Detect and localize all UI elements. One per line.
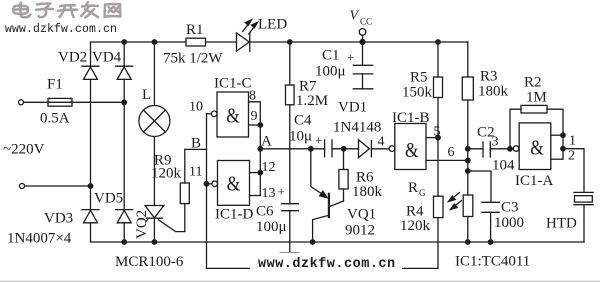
- power terminal Vcc: [359, 29, 366, 42]
- svg-text:R5: R5: [410, 70, 428, 86]
- svg-text:~220V: ~220V: [3, 142, 45, 158]
- pin label 4: [378, 135, 385, 150]
- label Vcc: [350, 9, 373, 27]
- svg-text:R2: R2: [524, 75, 542, 91]
- label 180k R3: [478, 84, 509, 100]
- photoresistor RG: [449, 193, 473, 243]
- diode VD4: [116, 42, 133, 210]
- svg-text:9012: 9012: [345, 223, 375, 239]
- svg-text:10μ: 10μ: [289, 129, 312, 145]
- svg-text:R3: R3: [480, 69, 498, 85]
- top watermark url: [5, 23, 117, 36]
- label R4: [406, 204, 424, 220]
- label MCR100-6: [115, 254, 184, 270]
- thyristor VQ2: [145, 204, 185, 242]
- label 75k 1/2W: [163, 51, 223, 67]
- label 1000: [494, 215, 524, 231]
- gate ampersand IC1-D: [227, 172, 241, 196]
- label VQ2 vertical: [134, 210, 150, 239]
- label IC1-A: [515, 173, 553, 189]
- svg-text:150k: 150k: [402, 85, 433, 101]
- op-amp gate IC1-C: [207, 92, 249, 137]
- pin label 11: [189, 165, 202, 180]
- svg-text:8: 8: [249, 89, 256, 104]
- pin label 3: [492, 135, 499, 150]
- diode VD3: [82, 186, 99, 242]
- svg-text:3: 3: [492, 135, 499, 150]
- bottom edge line: [0, 280, 600, 282]
- label VD5: [94, 191, 123, 207]
- svg-text:&: &: [405, 138, 419, 162]
- resistor R4: [434, 196, 444, 217]
- plus sign C1: [347, 50, 354, 65]
- svg-text:&: &: [226, 104, 240, 128]
- wire AC terminal 2 to bridge: [25, 185, 91, 187]
- svg-text:+: +: [315, 133, 322, 148]
- capacitor C3: [468, 171, 499, 242]
- pin label 8: [249, 89, 256, 104]
- pin label 1: [569, 134, 576, 149]
- svg-text:5: 5: [434, 125, 441, 140]
- svg-text:B: B: [191, 136, 201, 152]
- svg-text:VQ1: VQ1: [347, 207, 376, 223]
- label ~220V: [3, 142, 45, 158]
- svg-text:1N4007×4: 1N4007×4: [7, 231, 72, 247]
- pin label 2: [568, 149, 575, 164]
- svg-text:180k: 180k: [478, 84, 509, 100]
- label C4: [294, 113, 312, 129]
- wire bottom rail: [91, 241, 585, 243]
- label 150k: [402, 85, 433, 101]
- label L: [142, 87, 151, 103]
- diode VD1: [359, 140, 389, 158]
- wire node B: [185, 148, 207, 150]
- label IC1-D: [215, 207, 253, 223]
- label 120k R9: [151, 166, 182, 182]
- label R7: [299, 79, 317, 95]
- svg-text:IC1-B: IC1-B: [392, 110, 430, 126]
- label 1.2M: [296, 93, 328, 109]
- resistor R1: [186, 38, 206, 46]
- fuse F1: [24, 98, 125, 106]
- svg-text:L: L: [142, 87, 151, 103]
- svg-text:IC1:TC4011: IC1:TC4011: [455, 254, 530, 270]
- resistor R3: [462, 42, 473, 195]
- svg-text:A: A: [261, 134, 272, 150]
- label C3: [501, 200, 519, 216]
- svg-text:10: 10: [189, 100, 203, 115]
- label R1: [186, 22, 204, 38]
- svg-text:HTD: HTD: [546, 216, 577, 232]
- svg-text:11: 11: [189, 165, 202, 180]
- resistor R7: [286, 42, 295, 204]
- svg-text:VD4: VD4: [92, 50, 122, 66]
- svg-text:F1: F1: [47, 77, 63, 93]
- svg-text:13: 13: [262, 186, 276, 201]
- wire gate A output to HTD: [563, 149, 584, 193]
- svg-text:LED: LED: [258, 17, 287, 33]
- lamp L: [139, 42, 170, 206]
- svg-text:www.dzkfw.com.cn: www.dzkfw.com.cn: [5, 23, 117, 36]
- wire node A horizontal: [260, 148, 324, 150]
- label 9012: [345, 223, 375, 239]
- bottom watermark www.dzkfw.com.cn: [258, 257, 396, 272]
- svg-text:C3: C3: [501, 200, 519, 216]
- capacitor C1: [353, 42, 372, 89]
- pin label 13: [262, 186, 276, 201]
- label 10u C4: [289, 129, 312, 145]
- svg-text:+: +: [278, 184, 285, 199]
- label 180k R6: [352, 184, 383, 200]
- svg-text:G: G: [419, 188, 426, 198]
- svg-text:C4: C4: [294, 113, 312, 129]
- pin label 9: [251, 109, 258, 124]
- label 1M: [526, 90, 547, 106]
- node label B: [191, 136, 201, 152]
- label C1: [322, 48, 340, 64]
- svg-text:IC1-A: IC1-A: [515, 173, 553, 189]
- svg-text:V: V: [350, 9, 360, 24]
- svg-text:R1: R1: [186, 22, 204, 38]
- wire top rail right segment: [250, 41, 468, 43]
- svg-text:C6: C6: [256, 204, 274, 220]
- label 100u C1: [315, 64, 346, 80]
- svg-text:6: 6: [448, 145, 455, 160]
- svg-text:75k 1/2W: 75k 1/2W: [163, 51, 223, 67]
- label LED: [258, 17, 287, 33]
- svg-text:&: &: [227, 172, 241, 196]
- svg-text:VD3: VD3: [44, 211, 73, 227]
- label R6: [356, 170, 374, 186]
- svg-text:VD2: VD2: [58, 50, 87, 66]
- pin 6 wire: [426, 159, 468, 161]
- resistor R5: [434, 42, 443, 196]
- label 120k R4: [400, 218, 431, 234]
- wire node A to VQ1 base arrow: [311, 149, 327, 198]
- resistor R2: [510, 105, 563, 148]
- transistor VQ1: [313, 194, 329, 242]
- pin label 5: [434, 125, 441, 140]
- wire top rail left segment: [91, 41, 187, 43]
- svg-text:1000: 1000: [494, 215, 524, 231]
- LED D1: [237, 20, 258, 52]
- node label A: [261, 134, 272, 150]
- label 0.5A: [40, 111, 70, 127]
- label VD2: [58, 50, 87, 66]
- svg-text:180k: 180k: [352, 184, 383, 200]
- svg-text:104: 104: [492, 158, 515, 174]
- svg-text:www.dzkfw.com.cn: www.dzkfw.com.cn: [258, 257, 396, 272]
- svg-text:120k: 120k: [400, 218, 431, 234]
- label VD3: [44, 211, 73, 227]
- pin 13 wire: [250, 195, 261, 197]
- svg-text:&: &: [530, 136, 544, 160]
- svg-text:R: R: [408, 180, 418, 196]
- label 104: [492, 158, 515, 174]
- label VD4: [92, 50, 122, 66]
- wire top rail between R1 and LED: [206, 41, 237, 43]
- label VD1: [338, 100, 367, 116]
- label HTD: [546, 216, 577, 232]
- label R5: [410, 70, 428, 86]
- label R2: [524, 75, 542, 91]
- svg-text:C1: C1: [322, 48, 340, 64]
- svg-text:2: 2: [568, 149, 575, 164]
- svg-text:12: 12: [262, 160, 276, 175]
- pin label 12: [262, 160, 276, 175]
- bottom watermark white box: [250, 253, 402, 272]
- svg-text:100μ: 100μ: [256, 219, 287, 235]
- pin 5 wire: [426, 137, 438, 139]
- pin label 10: [189, 100, 203, 115]
- gate ampersand IC1-A: [530, 136, 544, 160]
- svg-text:CC: CC: [360, 17, 372, 27]
- label R9: [154, 153, 172, 169]
- AC terminal 1: [19, 100, 24, 105]
- label R3: [480, 69, 498, 85]
- svg-text:1M: 1M: [526, 90, 547, 106]
- gate ampersand IC1-B: [405, 138, 419, 162]
- pin 1 wire: [551, 135, 563, 149]
- op-amp gate IC1-B: [389, 124, 426, 170]
- op-amp gate IC1-D: [207, 161, 250, 206]
- diode VD2: [82, 42, 99, 186]
- svg-text:9: 9: [251, 109, 258, 124]
- wire node A column: [259, 125, 261, 196]
- label C2: [477, 125, 495, 141]
- svg-text:1N4148: 1N4148: [333, 120, 381, 136]
- label VQ1: [347, 207, 376, 223]
- svg-text:1.2M: 1.2M: [296, 93, 328, 109]
- resistor R6: [329, 149, 348, 207]
- label 1N4007x4: [7, 231, 72, 247]
- svg-text:MCR100-6: MCR100-6: [115, 254, 184, 270]
- svg-text:VD5: VD5: [94, 191, 123, 207]
- pin 2 wire: [551, 149, 563, 160]
- label IC1:TC4011: [455, 254, 530, 270]
- svg-text:IC1-D: IC1-D: [215, 207, 253, 223]
- label IC1-B: [392, 110, 430, 126]
- svg-text:120k: 120k: [151, 166, 182, 182]
- diode VD5: [116, 210, 133, 242]
- gate ampersand IC1-C: [226, 104, 240, 128]
- plus sign C4: [315, 133, 322, 148]
- plus sign C6: [278, 184, 285, 199]
- buzzer HTD: [574, 192, 593, 242]
- svg-text:IC1-C: IC1-C: [214, 76, 252, 92]
- pin 9 wire: [249, 124, 261, 126]
- capacitor C2: [468, 142, 513, 157]
- top watermark hanzi: [13, 2, 120, 17]
- svg-text:VD1: VD1: [338, 100, 367, 116]
- resistor R9: [180, 149, 189, 203]
- pin 12 wire: [250, 172, 261, 174]
- svg-text:4: 4: [378, 135, 385, 150]
- wire gate output column and feedback to R4: [207, 114, 439, 269]
- svg-text:100μ: 100μ: [315, 64, 346, 80]
- label 100u C6: [256, 219, 287, 235]
- capacitor C4: [325, 140, 359, 157]
- label F1: [47, 77, 63, 93]
- svg-text:VQ2: VQ2: [134, 210, 150, 239]
- label RG: [408, 180, 426, 198]
- svg-text:0.5A: 0.5A: [40, 111, 70, 127]
- op-amp gate IC1-A: [513, 123, 551, 170]
- svg-text:+: +: [347, 50, 354, 65]
- svg-text:1: 1: [569, 134, 576, 149]
- pin label 6: [448, 145, 455, 160]
- label IC1-C: [214, 76, 252, 92]
- pin 8 wire: [249, 102, 261, 125]
- AC terminal 2: [20, 184, 25, 189]
- label 1N4148: [333, 120, 381, 136]
- capacitor C6: [280, 204, 299, 253]
- label C6: [256, 204, 274, 220]
